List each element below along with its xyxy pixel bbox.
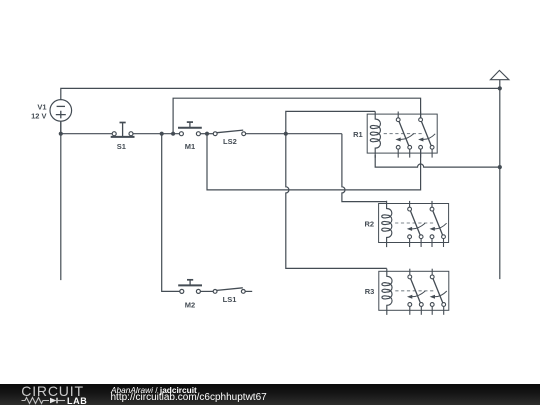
wire M2 to LS1 [200,290,213,292]
relay R3 pole2 bottom pins [431,306,433,315]
wire M1 to LS2 [200,133,213,135]
svg-text:V1: V1 [37,103,46,112]
relay R2 pole1 contacts [408,207,412,211]
relay R1 coil [370,111,380,157]
relay R2 pole1 arrow [412,223,425,229]
relay R2 coil [382,201,392,247]
relay R3 pole2 lever [433,279,443,303]
relay R3 [365,269,449,315]
relay R2 dashed link [395,222,434,224]
relay R1 dashed link [384,133,423,135]
relay R1 box [367,114,437,153]
footer bar [0,384,540,405]
wire LS2 node down to R3 coil top (hops over) [286,134,387,269]
relay R1 pole2 top pin [420,112,422,118]
relay R3 box [379,271,449,310]
wire V1 bottom lead down [60,121,62,280]
wire right rail [499,80,501,279]
relay R2 pole2 arrow [434,223,446,229]
wire top rail [61,88,500,133]
relay R3 pole2 contacts [430,275,434,279]
relay R2 box [379,204,449,243]
relay R3 dashed link [395,290,434,292]
relay R3 pole1 top pin [409,269,411,275]
voltage source V1 [31,100,72,122]
relay R1 pole1 top pin [397,112,399,118]
svg-text:M2: M2 [185,301,195,310]
relay R2 pole2 top pin [431,201,433,207]
relay R1 pole2 contacts [419,118,423,122]
junction M1/LS2 node [205,132,209,136]
switch LS2 [213,130,245,146]
relay R1 pole2 lever [421,121,431,145]
relay R2 pole1 lever [410,211,420,235]
relay R3 pole2 arrow [435,291,447,297]
relay R2 pole1 top pin [409,201,411,207]
relay R1 pole2 arrow [423,134,435,140]
junction R1 pole2 top branch [171,132,175,136]
relay R1 [353,111,437,157]
svg-text:12 V: 12 V [31,111,46,120]
wire M1/LS2 node down-right to R1 pole2 NO contact [207,134,421,190]
wire main line V1 to S1 [61,133,113,135]
junction LS2 output node [284,132,288,136]
wire LS2 node up to R1 coil top [286,111,375,133]
wire branch down to R2 coil top (hops over) [342,134,387,202]
wire LS2 output to R2 branch corner [246,133,342,135]
junction R1 coil bottom / right rail [498,165,502,169]
relay R3 pole1 contacts [408,275,412,279]
relay R2 pole2 lever [433,211,443,235]
svg-text:LS1: LS1 [223,295,237,304]
wire M2 branch: junction down to M2 [162,134,180,292]
wire up to R1 pole2 top pin [173,98,421,134]
relay R2 pole2 bottom pins [431,239,433,248]
CircuitLab logo [21,383,84,399]
svg-text:M1: M1 [185,142,195,151]
supply symbol (triangle) [490,70,509,79]
footer url line [111,392,267,403]
wire R1 coil bottom to right rail (hops over pin wire) [375,155,500,167]
relay R3 pole1 lever [411,279,421,303]
pushbutton M2 [178,280,202,310]
relay R2 pole2 contacts [430,207,434,211]
relay R3 pole1 arrow [412,291,425,297]
relay R3 pole2 top pin [431,269,433,275]
pushbutton M1 [178,122,202,151]
relay R2 [365,201,449,247]
svg-text:R1: R1 [353,130,363,139]
footer author line [111,385,197,395]
relay R1 pole1 arrow [400,134,413,140]
relay R3 coil [382,269,392,315]
relay R2 pole1 bottom pins [409,239,411,248]
relay R1 pole1 bottom pins [397,149,399,158]
junction M2 branch [160,132,164,136]
relay R3 pole1 bottom pins [409,306,411,315]
svg-text:S1: S1 [117,142,126,151]
relay R1 pole1 lever [399,121,409,145]
pushbutton S1 [111,123,135,152]
junction top rail / supply [498,86,502,90]
switch LS1 [213,288,245,304]
relay R1 pole2 bottom pins [420,149,422,158]
svg-text:R2: R2 [365,219,375,228]
svg-text:LS2: LS2 [223,137,237,146]
svg-text:R3: R3 [365,287,375,296]
wire LS1 output stub [245,290,252,292]
junction V1 / main line [59,132,63,136]
relay R1 pole1 contacts [396,118,400,122]
wire S1 to M1 [133,133,180,135]
